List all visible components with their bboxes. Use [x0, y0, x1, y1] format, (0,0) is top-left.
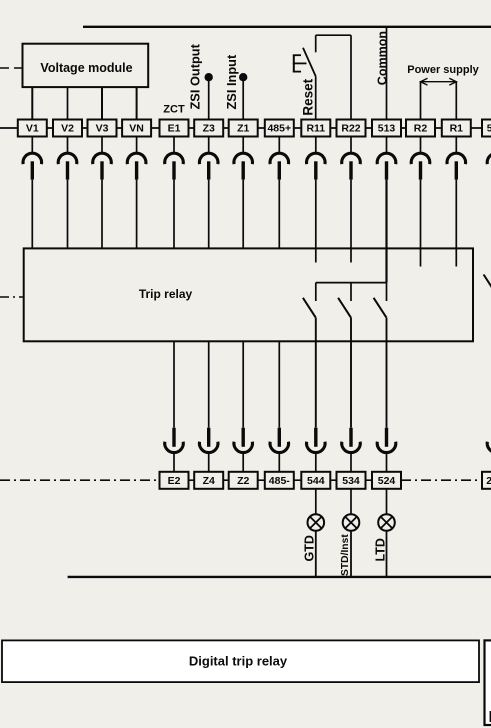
wire voltage module to terminal V1	[31, 87, 33, 120]
svg-text:VN: VN	[129, 123, 144, 135]
wire V1 into trip relay	[31, 180, 33, 249]
wire lamp STD/Inst to bottom bus	[350, 531, 352, 577]
terminal 544	[301, 472, 330, 489]
dash-dot rail right (bottom row)	[401, 479, 482, 481]
svg-text:ZCT: ZCT	[163, 104, 185, 116]
rail segments between bottom terminals	[160, 479, 401, 481]
svg-text:Reset: Reset	[301, 78, 316, 115]
bottom bus wire	[68, 576, 491, 578]
connector hook above bottom terminal (Z1 column)	[234, 428, 253, 472]
wire ZSI output to terminal Z3	[208, 77, 210, 119]
svg-text:Z1: Z1	[237, 123, 249, 135]
wire trip relay to bottom hook (Z3 column)	[208, 341, 210, 427]
terminal Z4	[194, 472, 223, 489]
terminal R22	[337, 120, 366, 137]
node dot ZSI input	[239, 73, 247, 81]
indicator lamp STD/Inst	[343, 514, 360, 531]
svg-text:R11: R11	[306, 123, 325, 135]
svg-text:STD/Inst: STD/Inst	[340, 534, 351, 576]
connector hook below terminal RX	[487, 137, 491, 180]
connector hook above bottom terminal (RX column)	[487, 428, 491, 472]
terminal 5xx (clipped at right edge)	[482, 120, 491, 137]
svg-text:LTD: LTD	[374, 538, 388, 561]
wire terminal to lamp (GTD)	[315, 489, 317, 514]
dash-dot lead into trip relay	[0, 296, 24, 298]
terminal 534	[337, 472, 366, 489]
svg-text:Trip relay: Trip relay	[139, 287, 193, 301]
connector hook above bottom terminal (485+ column)	[270, 428, 289, 472]
svg-text:R22: R22	[341, 123, 360, 135]
wire ZSI input to terminal Z1	[242, 77, 244, 119]
wire power supply to terminal R2	[420, 82, 422, 120]
svg-text:2: 2	[486, 475, 491, 487]
wire trip relay to bottom hook (Z1 column)	[242, 341, 244, 427]
connector hook below terminal 513	[377, 137, 396, 180]
relay contact for output 534	[338, 283, 351, 318]
wire R11 into trip relay (stub)	[315, 180, 317, 263]
svg-text:Common: Common	[375, 31, 389, 85]
connector hook above bottom terminal (R22 column)	[342, 428, 361, 472]
wire E1 into trip relay	[173, 180, 175, 249]
indicator lamp LTD	[378, 514, 395, 531]
terminal 2xx (clipped at right edge)	[482, 472, 491, 489]
wire jumper S1 to R22 column	[316, 34, 351, 36]
connector hook below terminal V2	[58, 137, 77, 180]
contact feed bus inside trip relay	[316, 282, 387, 284]
relay contact for output 544	[303, 283, 316, 318]
terminal Z2	[229, 472, 258, 489]
svg-text:GTD: GTD	[303, 535, 317, 561]
switch blade S1 (Reset)	[303, 48, 316, 76]
svg-text:485+: 485+	[267, 123, 291, 135]
svg-text:Digital trip relay: Digital trip relay	[189, 654, 288, 669]
wire contact 534 to bottom hook	[350, 318, 352, 428]
wire Z3 into trip relay	[208, 180, 210, 249]
svg-text:544: 544	[307, 475, 325, 487]
connector hook below terminal V1	[23, 137, 42, 180]
wire V2 into trip relay	[67, 180, 69, 249]
svg-text:E2: E2	[168, 475, 181, 487]
wire voltage module to terminal V2	[67, 87, 69, 120]
wire contact 544 to bottom hook	[315, 318, 317, 428]
connector hook below terminal R11	[306, 137, 325, 180]
connector hook above bottom terminal (E1 column)	[165, 428, 184, 472]
wire Common from top bus to terminal 513	[386, 27, 388, 120]
wire voltage module to terminal V3	[101, 87, 103, 120]
wire power supply to terminal R1	[455, 82, 457, 120]
wire trip relay to bottom hook (485+ column)	[278, 341, 280, 427]
trip relay K1	[24, 248, 473, 341]
dash-dot lead into voltage module	[0, 67, 23, 69]
relay contact for output 524	[374, 283, 387, 318]
wire 485+ into trip relay	[278, 180, 280, 249]
connector hook below terminal VN	[127, 137, 146, 180]
wire voltage module to terminal VN	[136, 87, 138, 120]
wire R1 into trip relay (stub)	[455, 180, 457, 267]
wire R22 into trip relay (stub)	[350, 180, 352, 263]
dash-dot rail left (bottom row)	[0, 479, 160, 481]
wire lamp LTD to bottom bus	[386, 531, 388, 577]
fixed contact stub S1	[315, 35, 317, 52]
top bus wire	[83, 26, 491, 28]
digital trip relay block	[2, 640, 479, 682]
svg-text:ZSI Input: ZSI Input	[224, 54, 239, 109]
connector hook below terminal V3	[93, 137, 112, 180]
wire trip relay to bottom hook (E1 column)	[173, 341, 175, 427]
connector hook above bottom terminal (Z3 column)	[199, 428, 218, 472]
svg-text:Voltage module: Voltage module	[40, 61, 132, 75]
terminal 513	[372, 120, 401, 137]
wire terminal to lamp (STD/Inst)	[350, 489, 352, 514]
wire terminal to lamp (LTD)	[386, 489, 388, 514]
wire jumper down to terminal R22	[350, 35, 352, 119]
wire VN into trip relay	[136, 180, 138, 249]
terminal R11	[301, 120, 330, 137]
svg-text:V2: V2	[61, 123, 74, 135]
terminal strip rail (top row)	[0, 127, 491, 129]
node dot ZSI output	[205, 73, 213, 81]
terminal V1	[18, 120, 47, 137]
svg-text:524: 524	[378, 475, 396, 487]
wire lamp GTD to bottom bus	[315, 531, 317, 577]
terminal V2	[53, 120, 82, 137]
svg-text:ZSI Output: ZSI Output	[188, 43, 203, 109]
svg-text:513: 513	[378, 123, 396, 135]
svg-text:R2: R2	[414, 123, 428, 135]
terminal 485-	[265, 472, 294, 489]
terminal 485+	[265, 120, 294, 137]
terminal R2	[406, 120, 435, 137]
wire 513 down to contact bus	[385, 180, 387, 283]
wire contact 524 to bottom hook	[386, 318, 388, 428]
connector hook below terminal Z3	[199, 137, 218, 180]
terminal 524	[372, 472, 401, 489]
terminal E2	[160, 472, 189, 489]
terminal E1	[160, 120, 189, 137]
terminal R1	[442, 120, 471, 137]
svg-text:51: 51	[487, 123, 491, 135]
terminal Z1	[229, 120, 258, 137]
contact blade (clipped, right column)	[484, 275, 491, 295]
wire blade to terminal R11	[315, 76, 317, 119]
svg-text:E1: E1	[168, 123, 181, 135]
wire Z1 into trip relay	[242, 180, 244, 249]
terminal V3	[88, 120, 117, 137]
connector hook above bottom terminal (513 column)	[377, 428, 396, 472]
connector hook above bottom terminal (R11 column)	[306, 428, 325, 472]
svg-text:Power supply: Power supply	[407, 64, 479, 76]
adjacent block (clipped at right edge)	[485, 640, 491, 726]
svg-text:R1: R1	[450, 123, 464, 135]
pushbutton actuator S1	[293, 55, 307, 71]
connector hook below terminal R2	[411, 137, 430, 180]
terminal Z3	[194, 120, 223, 137]
voltage module U1	[23, 44, 149, 87]
svg-text:V3: V3	[96, 123, 109, 135]
dimension arrows power supply	[421, 78, 457, 85]
svg-text:V1: V1	[26, 123, 39, 135]
wire V3 into trip relay	[101, 180, 103, 249]
svg-text:485-: 485-	[269, 475, 291, 487]
svg-text:Z4: Z4	[203, 475, 215, 487]
connector hook below terminal E1	[165, 137, 184, 180]
svg-text:Z2: Z2	[237, 475, 249, 487]
svg-text:534: 534	[342, 475, 360, 487]
connector hook below terminal 485+	[270, 137, 289, 180]
indicator lamp GTD	[308, 514, 325, 531]
connector hook below terminal R1	[447, 137, 466, 180]
svg-text:Z3: Z3	[203, 123, 215, 135]
wire R2 into trip relay (stub)	[420, 180, 422, 267]
terminal VN	[122, 120, 151, 137]
connector hook below terminal R22	[342, 137, 361, 180]
connector hook below terminal Z1	[234, 137, 253, 180]
